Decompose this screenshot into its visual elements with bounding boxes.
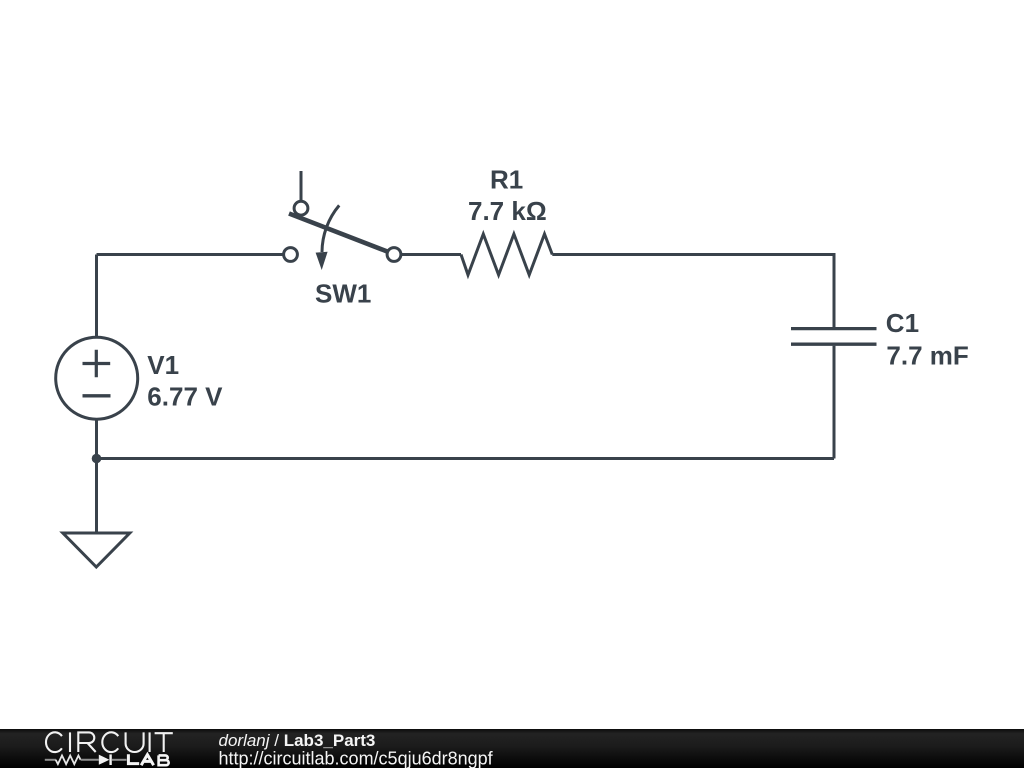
ground xyxy=(63,533,130,567)
wire resistor to top-right corner xyxy=(552,255,834,328)
logo word LAB letter B xyxy=(159,755,169,765)
wire SW1 top stub xyxy=(300,171,303,201)
CircuitLab logo word CIRCUIT xyxy=(46,732,173,752)
logo letter I xyxy=(69,732,71,752)
SW1 arrowhead xyxy=(316,252,328,270)
logo letter U xyxy=(126,732,144,752)
SW1 lever xyxy=(289,214,388,252)
svg-text:7.7 kΩ: 7.7 kΩ xyxy=(468,196,547,226)
logo letter R xyxy=(78,732,95,752)
logo wire right xyxy=(112,759,127,761)
wire V1 top vertical xyxy=(95,255,98,339)
logo diode bar xyxy=(109,754,111,765)
logo schematic row xyxy=(45,754,169,765)
V1 plus sign xyxy=(83,350,111,378)
SW1 right terminal circle xyxy=(387,248,401,262)
voltage source V1 xyxy=(56,337,223,419)
V1 minus sign xyxy=(83,394,111,397)
SW1 top terminal circle xyxy=(294,201,308,215)
logo letter C xyxy=(46,732,62,752)
wire capacitor bottom vertical xyxy=(833,346,836,459)
C1 bottom plate xyxy=(791,343,877,346)
switch SW1 xyxy=(284,171,401,309)
wire V1 bottom to ground xyxy=(95,419,98,534)
svg-text:C1: C1 xyxy=(886,308,919,338)
svg-text:7.7 mF: 7.7 mF xyxy=(886,341,968,371)
svg-text:dorlanj / Lab3_Part3: dorlanj / Lab3_Part3 xyxy=(219,731,376,750)
svg-text:V1: V1 xyxy=(147,350,179,380)
SW1 left terminal circle xyxy=(284,248,298,262)
logo wire left xyxy=(45,759,56,761)
C1 top plate xyxy=(791,327,877,330)
logo letter I xyxy=(149,732,151,752)
wire top-left horizontal xyxy=(97,253,284,256)
SW1 actuation arc xyxy=(322,205,339,252)
svg-text:SW1: SW1 xyxy=(315,279,371,309)
wire switch to resistor xyxy=(401,253,461,256)
wire bottom horizontal xyxy=(97,457,835,460)
svg-text:http://circuitlab.com/c5qju6dr: http://circuitlab.com/c5qju6dr8ngpf xyxy=(219,748,494,768)
resistor R1 xyxy=(461,164,552,275)
logo wire middle xyxy=(81,759,99,761)
footer bar xyxy=(0,729,1024,768)
logo resistor zigzag xyxy=(56,756,81,765)
capacitor C1 xyxy=(791,308,969,371)
svg-text:R1: R1 xyxy=(490,164,523,194)
logo letter T xyxy=(155,733,173,752)
logo word LAB letter L xyxy=(128,754,139,763)
node A junction dot xyxy=(92,454,102,464)
svg-text:6.77 V: 6.77 V xyxy=(147,382,223,412)
logo diode triangle xyxy=(99,755,110,765)
logo word LAB letter A xyxy=(141,755,153,766)
logo letter C xyxy=(102,732,118,752)
